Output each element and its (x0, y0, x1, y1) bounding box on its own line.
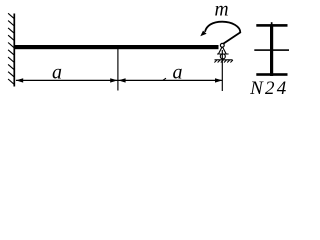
svg-text:a: a (52, 61, 62, 83)
svg-text:a: a (173, 61, 183, 83)
svg-text:m: m (214, 0, 228, 21)
svg-text:N24: N24 (249, 78, 288, 99)
